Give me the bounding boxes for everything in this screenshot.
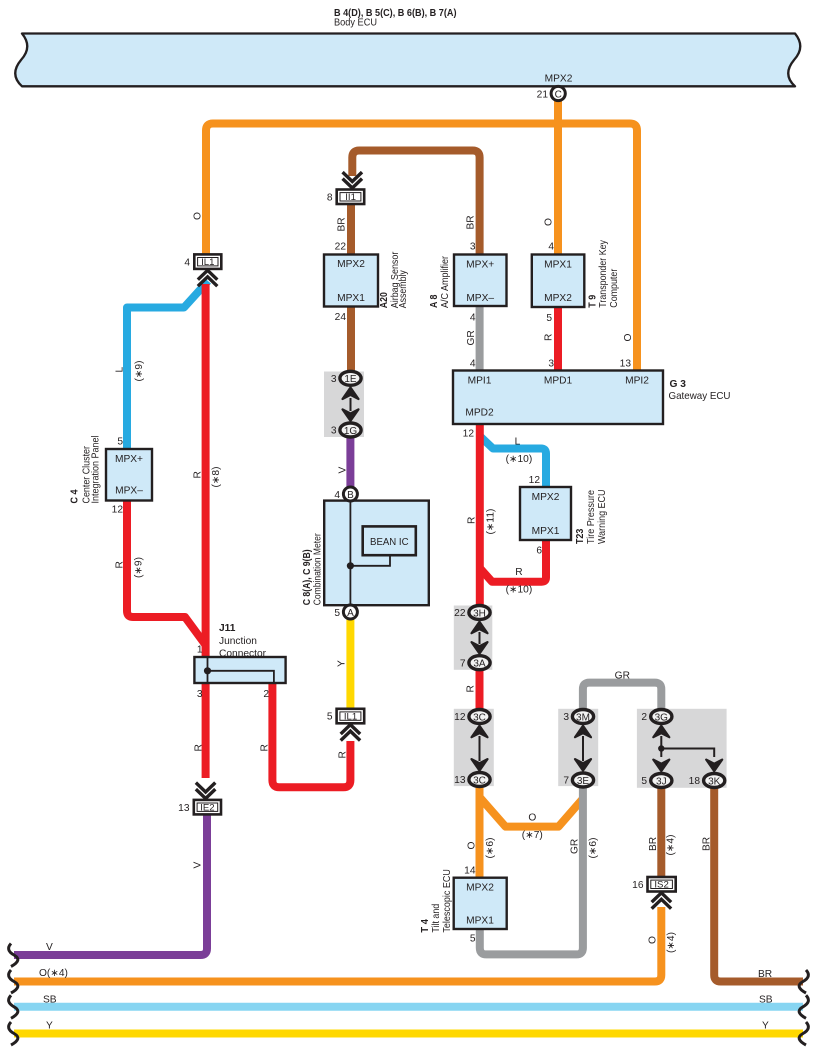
svg-text:7: 7 (563, 776, 569, 787)
svg-text:L: L (115, 367, 126, 373)
svg-text:BR: BR (337, 217, 348, 231)
arrow down to 3K (706, 760, 722, 772)
wire O orange 21C to T9 pin4 (554, 100, 562, 255)
svg-text:3: 3 (331, 426, 337, 437)
svg-text:(∗7): (∗7) (522, 830, 543, 841)
wire O orange 3C to T4 pin14 (476, 785, 484, 878)
svg-text:MPX–: MPX– (115, 486, 143, 497)
svg-text:22: 22 (454, 608, 466, 619)
svg-text:MPX1: MPX1 (544, 260, 572, 271)
svg-text:13: 13 (620, 359, 632, 370)
branch to 3K (661, 749, 714, 758)
svg-text:8: 8 (327, 192, 333, 203)
svg-text:5: 5 (470, 934, 476, 945)
svg-text:(∗10): (∗10) (506, 454, 533, 465)
squiggle O bus left (9, 970, 18, 993)
wire GR gray 3M to 3G (583, 683, 661, 710)
svg-text:3: 3 (197, 689, 203, 700)
svg-text:MPD1: MPD1 (544, 376, 573, 387)
connector IL1 pin4 (184, 254, 221, 269)
svg-text:BR: BR (702, 837, 713, 851)
svg-text:Integration Panel: Integration Panel (91, 436, 102, 504)
svg-text:(∗11): (∗11) (486, 509, 497, 535)
arrow up to 3M (575, 726, 591, 738)
svg-text:Warning ECU: Warning ECU (597, 490, 608, 545)
arrow down to 3C lower (472, 759, 488, 771)
svg-text:R: R (194, 744, 205, 751)
component T9 Transponder Key Computer (532, 239, 620, 324)
svg-text:J11: J11 (219, 623, 236, 634)
svg-text:MPX1: MPX1 (532, 526, 560, 537)
BEAN IC (363, 526, 416, 555)
wire R red C4 pin12 to J11 (127, 500, 206, 645)
svg-text:Combination Meter: Combination Meter (312, 533, 323, 605)
svg-text:MPX2: MPX2 (544, 293, 572, 304)
oval connector 3G (641, 710, 672, 724)
svg-text:5: 5 (334, 608, 340, 619)
svg-text:MPD2: MPD2 (465, 408, 494, 419)
svg-text:V: V (46, 942, 53, 953)
svg-text:1: 1 (197, 645, 203, 656)
svg-text:O: O (193, 212, 204, 220)
svg-text:GR: GR (466, 330, 477, 345)
connector IS2 pin16 (632, 877, 676, 892)
svg-text:A/C Amplifier: A/C Amplifier (440, 255, 451, 308)
svg-text:O: O (544, 218, 555, 226)
arrow down to 3J (653, 760, 669, 772)
svg-text:5: 5 (546, 313, 552, 324)
svg-text:3E: 3E (577, 776, 590, 787)
svg-text:3: 3 (563, 712, 569, 723)
oval connector 3C lower (454, 773, 490, 787)
chevrons above IE2 (197, 784, 214, 799)
connector 21 (C) (537, 86, 566, 100)
svg-text:R: R (260, 744, 271, 751)
connector A circle (334, 605, 357, 619)
svg-text:7: 7 (460, 658, 466, 669)
svg-text:BR: BR (466, 215, 477, 229)
wire GR gray A8 pin4 to MPI1 (476, 305, 484, 371)
svg-text:5: 5 (327, 712, 333, 723)
svg-text:Tire Pressure: Tire Pressure (586, 490, 597, 544)
oval connector 3J (641, 774, 672, 788)
arrow up to 3C (472, 726, 488, 738)
svg-text:MPI2: MPI2 (625, 376, 649, 387)
squiggle SB bus right (799, 995, 808, 1018)
junction dot combination meter (347, 562, 354, 569)
connector IL1 pin5 (327, 709, 364, 724)
svg-text:(∗9): (∗9) (134, 557, 145, 578)
junction dot J11 (204, 667, 211, 674)
svg-text:R: R (544, 334, 555, 341)
wire BR brown II1 to A20 pin22 (347, 203, 355, 255)
svg-text:MPI1: MPI1 (468, 376, 492, 387)
oval connector 3K (689, 774, 725, 788)
svg-text:3M: 3M (576, 712, 590, 723)
component T23 Tire Pressure Warning ECU (520, 475, 608, 557)
wire O orange jumper (*7) (480, 797, 583, 827)
svg-text:IE2: IE2 (200, 802, 214, 813)
svg-text:4: 4 (548, 242, 554, 253)
internal branch to BEAN IC (350, 556, 390, 566)
arrow up to 3G (653, 726, 669, 738)
svg-text:O: O (623, 334, 634, 342)
gray band 3C/3C (454, 709, 494, 786)
svg-text:MPX2: MPX2 (545, 74, 573, 85)
squiggle SB bus left (9, 995, 18, 1018)
squiggle Y bus right (799, 1022, 808, 1045)
arrow link 3C-3C (479, 736, 481, 761)
svg-text:MPX1: MPX1 (466, 915, 494, 926)
wire BR brown 3J to IS2 (657, 788, 665, 878)
svg-text:IL1: IL1 (344, 711, 357, 722)
svg-text:GR: GR (615, 671, 630, 682)
arrow link 3H-3A (479, 632, 481, 644)
svg-text:Y: Y (46, 1021, 53, 1032)
wire SB skyblue bottom bus (14, 1003, 803, 1011)
svg-text:O: O (528, 813, 536, 824)
connector II1 pin8 (327, 190, 364, 205)
svg-text:Computer: Computer (609, 268, 620, 308)
wire L blue gateway to T23 (480, 436, 546, 488)
svg-text:V: V (337, 467, 348, 474)
wire BR brown II1 to A8 pin3 (352, 151, 479, 256)
Body ECU bus bar (15, 34, 800, 87)
connector IE2 pin13 (178, 800, 221, 815)
svg-text:3: 3 (331, 374, 337, 385)
svg-text:4: 4 (470, 313, 476, 324)
component T4 Tilt and Telescopic ECU (420, 866, 507, 945)
svg-text:C 8(A), C 9(B): C 8(A), C 9(B) (302, 549, 313, 605)
svg-text:12: 12 (112, 505, 124, 516)
svg-text:O: O (648, 936, 659, 944)
svg-text:A 8: A 8 (429, 294, 440, 308)
wire R red T23 pin6 loop (480, 539, 546, 582)
junction dot 3G band (658, 745, 664, 751)
gray band 1E/1G (324, 372, 364, 438)
svg-text:14: 14 (464, 866, 476, 877)
svg-text:A20: A20 (379, 292, 390, 308)
svg-text:4: 4 (184, 257, 190, 268)
component J11 Junction Connector (194, 623, 285, 700)
arrow up to 3H (472, 622, 488, 634)
svg-text:MPX1: MPX1 (337, 293, 365, 304)
chevrons below IS2 (653, 893, 670, 908)
svg-text:Y: Y (762, 1021, 769, 1032)
wire L blue C4 branch (127, 281, 208, 450)
oval connector 3C upper (454, 710, 490, 724)
svg-text:T23: T23 (575, 528, 586, 544)
svg-text:R: R (115, 561, 126, 568)
wire R red IL1 to J11 pin1 (202, 284, 210, 658)
svg-text:3C: 3C (473, 775, 486, 786)
svg-text:12: 12 (463, 429, 475, 440)
svg-text:22: 22 (335, 242, 347, 253)
svg-text:21: 21 (537, 90, 549, 101)
svg-text:Assembly: Assembly (398, 269, 409, 308)
wire O orange IL1 across to MPI2 (206, 124, 637, 372)
svg-text:(∗4): (∗4) (666, 835, 677, 856)
arrow down to 1G (343, 409, 359, 421)
svg-text:16: 16 (632, 880, 644, 891)
svg-text:MPX2: MPX2 (337, 259, 365, 270)
wire Y yellow bottom bus (14, 1030, 803, 1038)
svg-text:C 4: C 4 (70, 489, 81, 503)
arrow down to 3E (575, 759, 591, 771)
svg-text:3A: 3A (473, 659, 486, 670)
svg-text:6: 6 (536, 546, 542, 557)
svg-text:13: 13 (178, 803, 190, 814)
svg-text:13: 13 (454, 775, 466, 786)
svg-text:SB: SB (759, 995, 773, 1006)
svg-text:3J: 3J (656, 776, 667, 787)
wire R red J11 pin2 to IL1(5) (272, 682, 350, 787)
svg-text:3: 3 (470, 242, 476, 253)
svg-text:Junction: Junction (219, 636, 257, 647)
arrow down to 3A (472, 642, 488, 654)
chevrons below IL1 pin4 (199, 270, 216, 285)
svg-text:18: 18 (689, 776, 701, 787)
svg-text:3: 3 (548, 359, 554, 370)
wire R red T9 pin5 to MPD1 (554, 306, 562, 371)
svg-text:MPX+: MPX+ (466, 260, 494, 271)
svg-text:R: R (193, 471, 204, 478)
svg-text:3G: 3G (655, 712, 669, 723)
svg-text:MPX–: MPX– (466, 293, 494, 304)
svg-text:G 3: G 3 (670, 379, 687, 390)
wire V violet IE2 to bus (14, 813, 207, 955)
svg-text:O(∗4): O(∗4) (39, 968, 68, 979)
svg-text:3H: 3H (473, 608, 486, 619)
svg-text:A: A (347, 608, 354, 619)
svg-text:R: R (338, 751, 349, 758)
component A8 A/C Amplifier (429, 242, 507, 324)
wire R red 3A to 3C (476, 669, 484, 710)
svg-text:4: 4 (334, 490, 340, 501)
svg-text:Telescopic ECU: Telescopic ECU (442, 869, 453, 933)
svg-text:5: 5 (641, 776, 647, 787)
svg-text:Gateway ECU: Gateway ECU (669, 391, 731, 402)
connector B circle (334, 487, 357, 501)
link 3G to junction (660, 736, 662, 749)
svg-text:BEAN IC: BEAN IC (370, 537, 409, 548)
svg-text:GR: GR (570, 839, 581, 854)
internal wire J11 (207, 658, 209, 682)
svg-text:5: 5 (117, 437, 123, 448)
svg-text:24: 24 (335, 312, 347, 323)
svg-text:SB: SB (43, 995, 57, 1006)
svg-text:BR: BR (648, 837, 659, 851)
internal wire combination meter (349, 501, 351, 605)
svg-text:II1: II1 (345, 192, 356, 203)
svg-text:T 4: T 4 (420, 919, 431, 933)
svg-text:Transponder Key: Transponder Key (598, 239, 609, 307)
svg-text:Body ECU: Body ECU (334, 18, 377, 29)
svg-text:(∗6): (∗6) (588, 838, 599, 859)
svg-text:R: R (467, 517, 478, 524)
svg-text:1E: 1E (344, 374, 357, 385)
svg-text:IL1: IL1 (201, 257, 214, 268)
oval connector 3M (563, 710, 593, 724)
svg-text:B: B (347, 490, 354, 501)
oval connector 3H (454, 606, 490, 620)
svg-text:3K: 3K (708, 776, 721, 787)
wire V violet 1G to B (346, 436, 354, 488)
svg-text:L: L (515, 437, 521, 448)
wire BR brown 3K to bottom right (714, 788, 803, 982)
svg-text:MPX2: MPX2 (532, 492, 560, 503)
svg-text:(∗8): (∗8) (211, 467, 222, 488)
svg-text:T 9: T 9 (588, 294, 599, 307)
component A20 Airbag Sensor Assembly (324, 242, 409, 324)
svg-text:(∗10): (∗10) (506, 585, 533, 596)
gray band 3M/3E (558, 709, 598, 786)
oval connector 3E (563, 773, 593, 787)
svg-text:Tilt and: Tilt and (431, 904, 442, 933)
component C8/C9 Combination Meter (302, 501, 429, 606)
svg-text:MPX+: MPX+ (115, 454, 143, 465)
svg-text:MPX2: MPX2 (466, 883, 494, 894)
gray band 3H/3A (454, 606, 493, 670)
wire GR gray T4 pin5 to 3E (480, 788, 583, 954)
svg-text:1G: 1G (344, 426, 358, 437)
svg-text:3C: 3C (473, 712, 486, 723)
oval connector 1E (331, 371, 361, 385)
gray band 3G/3J/3K (637, 709, 727, 788)
svg-text:R: R (515, 567, 522, 578)
svg-text:R: R (465, 685, 476, 692)
oval connector 1G (331, 423, 361, 437)
squiggle V bus left (9, 944, 18, 967)
wire O orange bus O(*4) to IS2 (14, 907, 661, 982)
wire R red MPD2 pin12 to 3H (476, 423, 484, 606)
svg-text:2: 2 (263, 689, 269, 700)
chevrons above II1 (344, 173, 361, 188)
svg-text:Connector: Connector (219, 649, 267, 660)
arrow link 3M-3E (582, 736, 584, 761)
component C4 Center Cluster Integration Panel (70, 436, 153, 516)
svg-text:Y: Y (337, 660, 348, 667)
squiggle Y bus left (9, 1022, 18, 1045)
chevrons below IL1 pin5 (342, 725, 359, 740)
svg-text:2: 2 (641, 712, 647, 723)
wire BR brown A20 pin24 to 1E (347, 306, 355, 372)
svg-text:(∗9): (∗9) (134, 361, 145, 382)
svg-text:IS2: IS2 (654, 880, 668, 891)
internal branch J11 (208, 671, 274, 682)
svg-text:12: 12 (529, 475, 541, 486)
svg-text:(∗6): (∗6) (485, 838, 496, 859)
oval connector 3A (460, 656, 490, 670)
svg-text:V: V (193, 862, 204, 869)
svg-text:12: 12 (454, 712, 466, 723)
arrow link 1E-1G (350, 398, 352, 411)
svg-text:4: 4 (470, 359, 476, 370)
squiggle BR bus right (799, 970, 808, 993)
wire R red J11 pin3 to IE2 (202, 682, 210, 778)
svg-text:(∗4): (∗4) (666, 932, 677, 953)
svg-text:C: C (555, 89, 562, 100)
link down to 3J (660, 749, 662, 758)
arrow up to 1E (343, 388, 359, 400)
svg-text:O: O (467, 842, 478, 850)
component G3 Gateway ECU (453, 359, 731, 440)
svg-text:BR: BR (758, 969, 772, 980)
wire Y yellow A to IL1(5) (346, 619, 354, 710)
